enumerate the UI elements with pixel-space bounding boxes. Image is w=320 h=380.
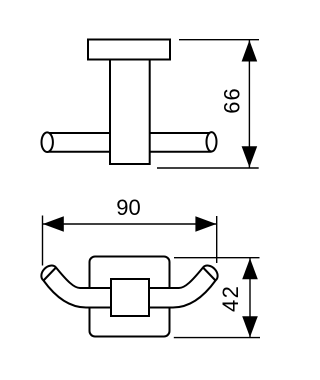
svg-text:42: 42	[218, 285, 243, 312]
top view: left hook arm	[41, 266, 112, 308]
dimension 66: dimension line	[248, 40, 250, 168]
front view: stem	[110, 60, 150, 165]
front view: hook bar body	[47, 133, 211, 152]
front view: wall plate	[88, 40, 170, 60]
dimension 66: arrow down	[242, 146, 258, 167]
dimension 66: top extension line	[179, 39, 259, 41]
dimension 42: dimension line	[249, 258, 251, 338]
top view: stem (square)	[111, 279, 149, 316]
front view: hook bar top line	[47, 132, 211, 134]
front view: bar left end cap	[42, 132, 53, 152]
svg-text:66: 66	[220, 87, 245, 113]
dimension 90: arrow left	[43, 216, 64, 231]
front view: hook bar bottom line	[47, 151, 211, 153]
dimension 90: arrow right	[195, 216, 216, 231]
dimension 66: bottom extension line	[157, 167, 259, 169]
dimension 42: bottom extension line	[174, 337, 260, 339]
top view: right hook arm	[147, 266, 218, 308]
dimension 90: dimension line	[43, 223, 217, 225]
front view: bar right end cap	[207, 132, 217, 151]
dimension 90: right extension line	[216, 216, 218, 263]
top view: wall plate (rounded square)	[90, 257, 170, 337]
dimension 42: arrow down	[242, 316, 258, 337]
dimension 66: arrow up	[242, 40, 258, 61]
dimension 42: arrow up	[242, 258, 258, 279]
dimension 90: left extension line	[42, 216, 44, 266]
dimension 42: top extension line	[174, 257, 260, 259]
svg-text:90: 90	[116, 195, 140, 220]
